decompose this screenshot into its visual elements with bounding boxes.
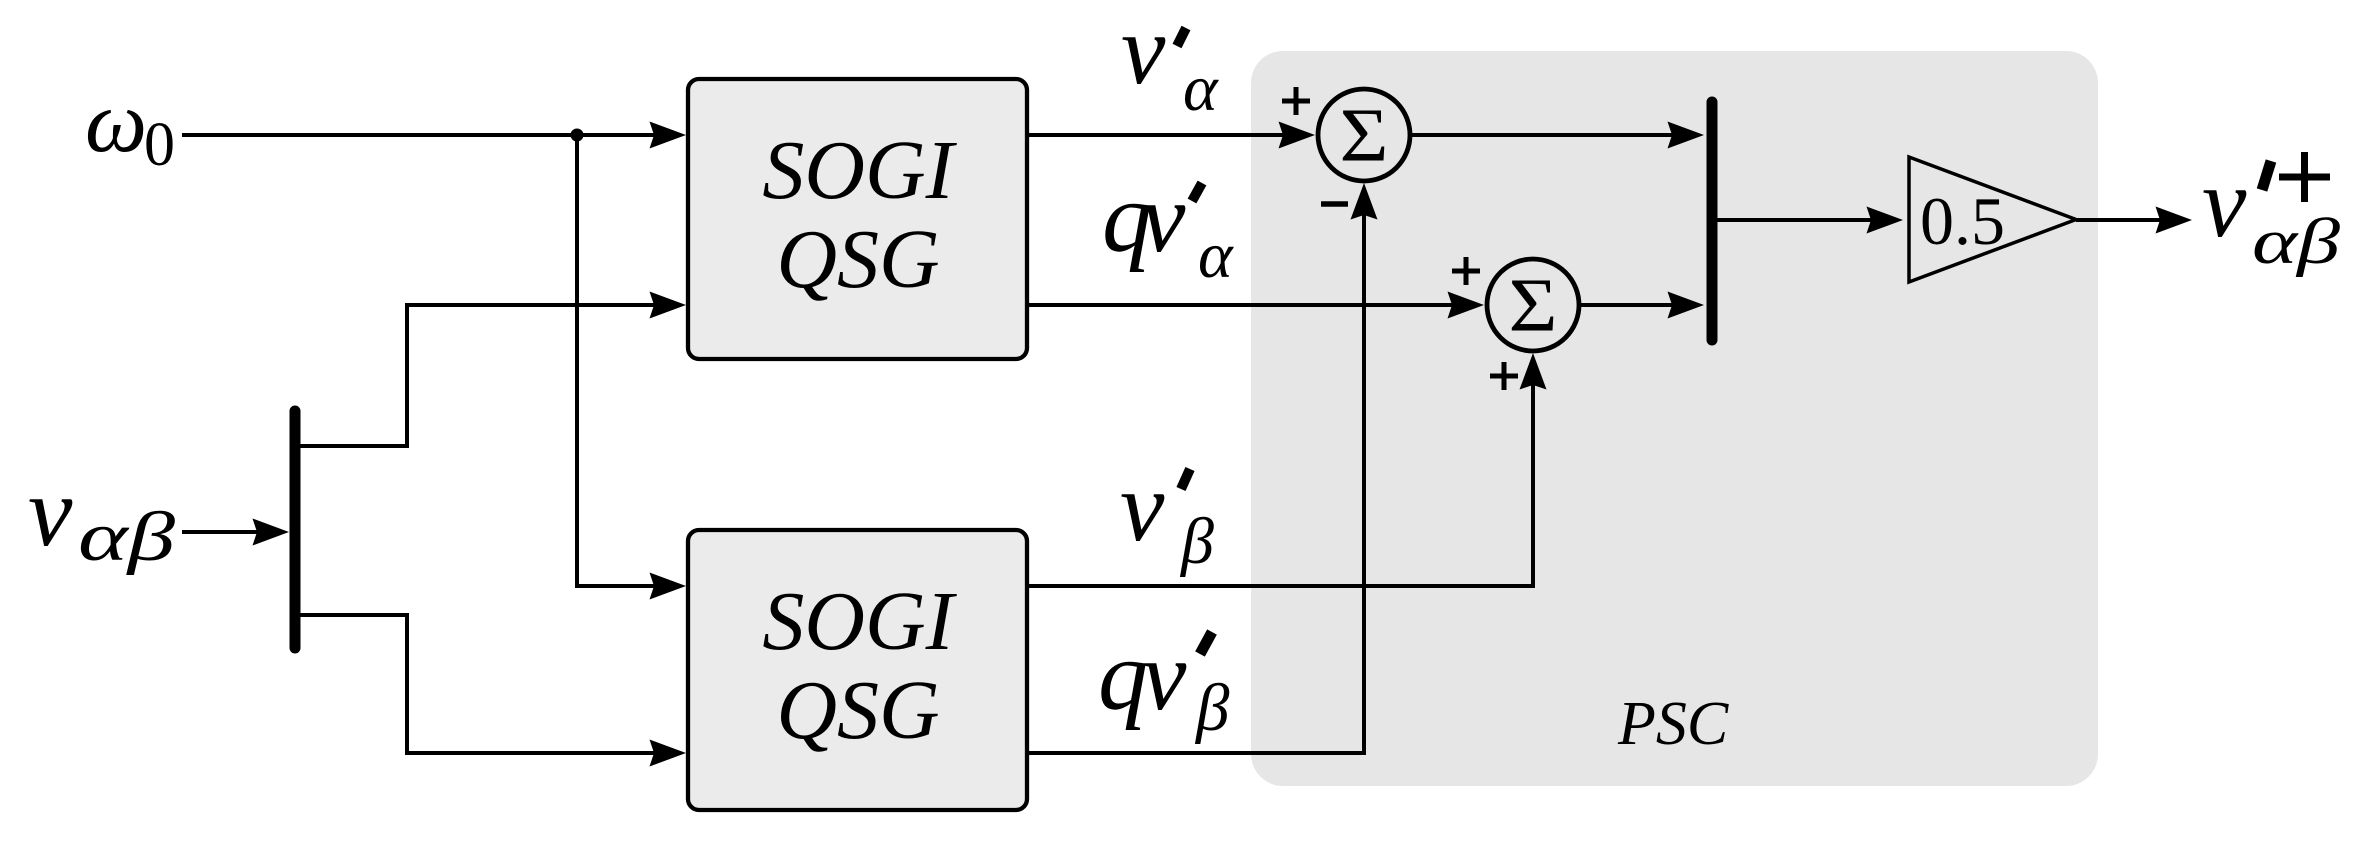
wire qv'_beta up into summer S1 bottom [1027,207,1364,753]
arrowhead into top SOGI input 1 [650,122,687,149]
summer S1 circle [1318,89,1410,181]
wire bus upper branch to top SOGI input 2 [295,305,662,446]
arrowhead into summer S1 [1279,122,1316,149]
junction node on omega0 wire [571,129,584,142]
wire bus lower branch to bottom SOGI input 2 [295,615,662,753]
svg-text:v: v [28,456,73,567]
label qv'_alpha [1102,162,1234,292]
svg-text:β: β [1179,505,1214,578]
output bus bar [1707,102,1718,340]
svg-text:Σ: Σ [1509,264,1558,348]
arrowhead into summer S2 bottom [1520,353,1547,390]
label v'_beta [1120,451,1214,578]
PSC shaded region [1251,51,2098,786]
svg-text:SOGI: SOGI [762,575,957,668]
plus sign at summer S2 left input [1452,257,1480,285]
arrowhead into bottom SOGI input 1 [650,573,687,600]
input label v_alphabeta [28,456,175,576]
svg-text:αβ: αβ [2252,206,2341,278]
wire v'_beta up into summer S2 bottom [1027,377,1533,586]
block top SOGI QSG [688,79,1027,359]
plus sign at summer S1 top input [1282,87,1310,115]
wire v_alphabeta to input bus bar [182,530,265,534]
minus sign at summer S1 bottom input [1321,201,1348,207]
gain block 0.5 triangle [1909,157,2076,282]
wire summer S2 to output bus bar [1579,303,1681,307]
arrowhead into gain block [1867,207,1904,234]
svg-text:v: v [2202,147,2247,258]
svg-text:q: q [1098,620,1148,731]
arrowhead into bottom SOGI input 2 [650,740,687,767]
arrowhead into summer S2 [1448,292,1485,319]
wire omega0 to top SOGI input 1 [182,133,662,137]
svg-text:v: v [1141,162,1186,273]
summer S2 circle [1487,259,1579,351]
wire output bus bar to gain block [1717,218,1879,222]
svg-text:PSC: PSC [1617,690,1729,758]
svg-text:v: v [1142,620,1187,731]
svg-text:α: α [1198,219,1234,292]
label qv'_beta [1098,620,1230,745]
wire qv'_alpha to summer S2 [1027,303,1462,307]
label PSC [1617,690,1729,758]
svg-text:Σ: Σ [1340,94,1389,178]
svg-text:SOGI: SOGI [762,124,957,217]
input bus bar [290,411,301,648]
svg-text:QSG: QSG [776,664,939,757]
block bottom SOGI QSG [688,530,1027,810]
wire omega0 branch down to bottom SOGI input 1 [577,135,662,586]
svg-text:αβ: αβ [78,499,175,576]
arrowhead into output bus bar bottom [1668,292,1705,319]
label v'_alpha [1121,0,1219,125]
svg-text:0: 0 [144,111,175,179]
svg-text:β: β [1194,671,1230,745]
wire v'_alpha to summer S1 [1027,133,1293,137]
wire gain block to output [2076,218,2168,222]
svg-text:v: v [1120,451,1165,562]
arrowhead into output bus bar top [1668,122,1705,149]
input label omega0 [85,74,175,179]
svg-text:α: α [1183,52,1219,125]
output label v'+_alphabeta [2202,147,2341,278]
arrowhead into top SOGI input 2 [650,292,687,319]
arrowhead into summer S1 bottom [1351,183,1378,220]
svg-text:ω: ω [85,74,147,171]
svg-text:QSG: QSG [776,213,939,306]
plus sign at summer S2 bottom input [1490,362,1518,390]
svg-text:0.5: 0.5 [1920,183,2005,259]
arrowhead at output [2156,207,2193,234]
arrowhead into input bus bar [253,519,290,546]
svg-text:v: v [1121,0,1166,105]
wire summer S1 to output bus bar [1410,133,1681,137]
